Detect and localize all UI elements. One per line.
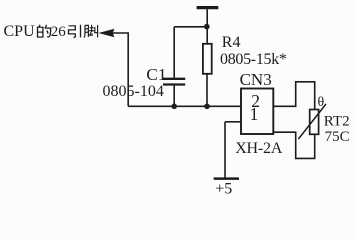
glyph 脚 xyxy=(84,25,98,38)
power +5 label xyxy=(215,180,232,197)
wire: CN3 pin 1 left lead xyxy=(225,121,241,123)
wire: main node line to CN3 pin 2 xyxy=(128,105,241,107)
resistor R4 body xyxy=(203,44,212,74)
pin number 1 xyxy=(250,104,259,124)
svg-text:0805-15k*: 0805-15k* xyxy=(220,51,287,68)
svg-text:θ: θ xyxy=(318,95,325,110)
C1 reference label xyxy=(146,65,166,84)
node junction dot R4 xyxy=(204,104,210,110)
capacitor C1 plates xyxy=(163,79,185,85)
thermistor RT2 body xyxy=(310,110,319,135)
svg-text:CN3: CN3 xyxy=(240,70,272,89)
wire: R4 bottom lead xyxy=(206,74,208,107)
svg-text:0805-104: 0805-104 xyxy=(103,83,164,100)
R4 reference label xyxy=(222,34,241,51)
wire: ground bar down through junction to R4 top xyxy=(206,9,208,44)
glyph 的 xyxy=(38,25,51,37)
R4 value label 0805-15k* xyxy=(220,51,287,68)
pin number 2 xyxy=(251,91,260,111)
svg-text:C1: C1 xyxy=(146,65,166,84)
svg-text:+5: +5 xyxy=(215,180,232,197)
arrowhead to CPU pin xyxy=(98,29,114,38)
wire: down to +5 supply xyxy=(224,122,226,178)
wire: CN3 pin 1 right lead down and around to thermistor bottom xyxy=(273,132,314,158)
wire: CN3 pin 2 right lead up and over to thermistor top xyxy=(273,82,314,110)
wire: junction left to C1 branch xyxy=(174,26,207,28)
RT2 reference label xyxy=(324,114,350,130)
ground bar (top common rail) xyxy=(197,6,219,9)
svg-text:CPU: CPU xyxy=(4,23,36,40)
svg-text:75C: 75C xyxy=(325,129,350,145)
thermistor RT2 diagonal stroke xyxy=(298,104,326,139)
glyph 引 xyxy=(69,25,81,38)
wire: arrow line and drop to node line xyxy=(112,33,128,106)
power +5 bar xyxy=(214,177,239,180)
RT2 value label 75C xyxy=(325,129,350,145)
wire: C1 top lead xyxy=(173,27,175,78)
C1 value label 0805-104 xyxy=(103,83,164,100)
wire: C1 bottom lead xyxy=(173,86,175,107)
node junction dot C1 xyxy=(171,104,177,110)
node junction dot at top xyxy=(204,24,210,30)
net label: CPU的26引脚 (Chinese glyphs drawn as paths) xyxy=(4,23,98,40)
svg-text:R4: R4 xyxy=(222,34,241,51)
CN3 reference label xyxy=(240,70,272,89)
svg-text:26: 26 xyxy=(51,24,67,40)
svg-text:XH-2A: XH-2A xyxy=(235,140,283,157)
thermistor theta symbol xyxy=(318,95,325,110)
connector CN3 box xyxy=(241,89,273,135)
CN3 type label XH-2A xyxy=(235,140,283,157)
svg-text:1: 1 xyxy=(250,104,259,124)
svg-text:RT2: RT2 xyxy=(324,114,350,130)
